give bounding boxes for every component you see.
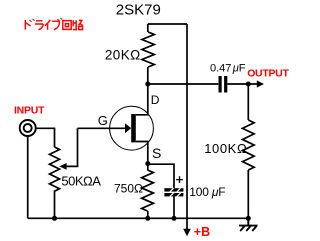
wire: source internal connection (136, 142, 148, 164)
transistor Q1 gate arrowhead (125, 123, 131, 133)
pin label "S" (152, 145, 161, 161)
svg-text:750Ω: 750Ω (114, 182, 143, 196)
ブ (52, 21, 60, 30)
svg-text:2SK79: 2SK79 (116, 1, 161, 18)
svg-text:20KΩ: 20KΩ (105, 47, 141, 62)
wire: +B supply vertical line (186, 24, 188, 230)
resistor R3 750Ω (source resistor) (142, 164, 154, 219)
resistor R2 100KΩ (load to ground) (243, 84, 255, 218)
svg-text:G: G (98, 113, 108, 128)
label "+B" (red) (194, 225, 210, 239)
ground symbol (239, 218, 258, 231)
svg-text:+B: +B (194, 225, 210, 239)
node: source junction dot (145, 161, 150, 166)
transistor Q1 channel bar (131, 114, 136, 142)
label "OUTPUT" (red) (247, 68, 289, 80)
node: ground junction dot (246, 216, 251, 221)
pin label "G" (98, 113, 108, 128)
wire: source node to bypass capacitor (148, 164, 174, 188)
wire: capacitor C2 to ground rail (173, 196, 175, 218)
capacitor C2 100µF (electrolytic, hatched plates) (164, 188, 183, 197)
title (red) "ドライブ回路" drive-circuit label (25, 18, 83, 30)
potentiometer VR1 wiper arm (from gate) (59, 128, 77, 170)
resistor R1 value label "20KΩ" (105, 47, 141, 62)
+B arrowhead (183, 229, 191, 237)
node: pot bottom ground dot (52, 216, 57, 221)
wire: gate lead (78, 127, 127, 129)
resistor R1 20KΩ (drain resistor) (142, 24, 154, 84)
wire: jack sleeve to ground rail (27, 136, 29, 218)
capacitor C2 value label "100μF" (189, 185, 225, 199)
capacitor C2 polarity "+" (176, 176, 183, 183)
potentiometer VR1 value label "50KΩA" (61, 173, 101, 188)
transistor Q1 2SK79 circle (110, 106, 154, 150)
wire: capacitor to output node (227, 83, 248, 85)
wire: drain internal connection (136, 84, 148, 115)
node: C2 ground dot (172, 216, 177, 221)
svg-text:S: S (152, 145, 161, 161)
svg-text:0.47μF: 0.47μF (210, 62, 246, 74)
node: R3 bottom ground dot (145, 216, 150, 221)
label "INPUT" (red) (14, 105, 45, 117)
pin label "D" (151, 93, 160, 107)
resistor R2 value label "100KΩ" (204, 141, 247, 156)
svg-text:INPUT: INPUT (14, 105, 45, 117)
イ (45, 20, 51, 30)
ラ (35, 21, 43, 30)
ド (25, 20, 30, 30)
output arrow (248, 80, 264, 87)
wire: jack hot to potentiometer top (36, 128, 55, 147)
capacitor C1 0.47µF (coupling) plates (219, 76, 228, 93)
capacitor C1 value label "0.47μF" (210, 62, 246, 74)
potentiometer VR1 50KΩA body (50, 147, 60, 218)
input jack J1 inner circle (24, 124, 32, 132)
wire: top rail from R1 top to +B line (148, 23, 187, 25)
svg-text:100KΩ: 100KΩ (204, 141, 247, 156)
node: output junction dot (246, 82, 251, 87)
transistor label "2SK79" (116, 1, 161, 18)
svg-text:D: D (151, 93, 160, 107)
svg-text:50KΩA: 50KΩA (61, 173, 101, 188)
wire: ground rail (28, 217, 249, 219)
wire: drain node to coupling capacitor (148, 83, 219, 85)
node: drain junction dot (145, 82, 150, 87)
回 (63, 21, 71, 30)
resistor R3 value label "750Ω" (114, 182, 143, 196)
路 (73, 20, 77, 29)
input jack J1 outer circle (20, 120, 36, 136)
svg-text:OUTPUT: OUTPUT (247, 68, 289, 80)
svg-text:100 μF: 100 μF (189, 185, 225, 199)
